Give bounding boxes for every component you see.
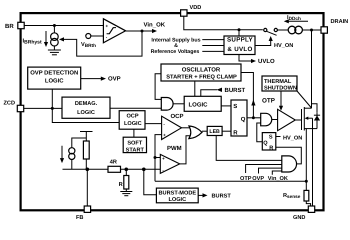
svg-text:BURST: BURST — [225, 87, 246, 94]
svg-text:LOGIC: LOGIC — [124, 121, 142, 127]
svg-text:VDD: VDD — [190, 5, 202, 11]
node drain junction — [310, 29, 313, 32]
block LEB — [207, 126, 222, 135]
wire LEB to AND4 — [216, 136, 282, 161]
wire FB divider rail — [63, 168, 88, 170]
pin VDD — [181, 10, 187, 16]
wire SR2 Q to AND B — [257, 123, 263, 142]
wire Q output — [247, 117, 261, 119]
switch HV_ON — [264, 28, 267, 31]
wire BR rail — [24, 25, 103, 27]
gate OR (OCP/PWM) — [189, 126, 202, 139]
node sense to PWM+ — [154, 156, 157, 159]
wire Vin_OK feedback to IBRhyst — [61, 31, 142, 56]
wire junction to supply block — [238, 30, 240, 36]
svg-text:LOGIC: LOGIC — [45, 77, 64, 84]
gate AND A (demag/osc) — [161, 98, 173, 111]
current source IBRhyst — [51, 33, 59, 41]
svg-text:LOGIC: LOGIC — [77, 110, 95, 116]
svg-text:+: + — [162, 156, 165, 161]
current source FB bias — [69, 148, 75, 154]
node VDD rail junction — [238, 28, 241, 31]
node BR junction — [53, 24, 56, 27]
border frame — [21, 13, 324, 210]
svg-text:OCP: OCP — [171, 113, 184, 120]
svg-text:SHUTDOWN: SHUTDOWN — [264, 85, 297, 91]
svg-text:LEB: LEB — [209, 129, 220, 135]
ground (divider R) — [125, 189, 127, 191]
wire drain column — [311, 30, 313, 108]
svg-text:Q: Q — [263, 141, 268, 147]
comparator PWM — [160, 154, 179, 173]
resistor R (FB top) — [83, 141, 89, 159]
svg-text:PWM: PWM — [167, 145, 182, 152]
node burst branch — [142, 168, 146, 172]
wire VDD rail — [184, 16, 263, 30]
svg-text:HV_ON: HV_ON — [274, 43, 293, 49]
wire OCP logic to soft start — [133, 129, 135, 137]
buffer driver — [278, 109, 296, 130]
block OSCILLATOR — [161, 64, 241, 81]
svg-text:UVLO: UVLO — [258, 58, 275, 65]
wire bus line 2 — [202, 45, 224, 47]
svg-text:SOFT: SOFT — [127, 140, 142, 146]
svg-text:Q: Q — [241, 116, 246, 123]
wire logic to latch S — [221, 105, 231, 107]
svg-text:+: + — [163, 133, 166, 138]
svg-text:IBRhyst: IBRhyst — [23, 39, 42, 46]
resistor R (divider) — [125, 169, 127, 175]
wire VBRth to comparator — [91, 35, 104, 37]
wire source to sense column — [305, 129, 307, 191]
wire OVP box to ZCD node — [51, 89, 53, 108]
node R branch — [125, 168, 129, 172]
svg-text:Reference Voltages: Reference Voltages — [151, 49, 200, 55]
svg-text:R: R — [119, 182, 123, 188]
node sense junction — [305, 180, 308, 183]
wire FB pin column — [86, 169, 88, 206]
svg-text:BURST-MODE: BURST-MODE — [158, 190, 196, 196]
wire drain to diode branch — [312, 104, 318, 113]
node Q junction — [252, 116, 255, 119]
wire divider to PWM — [121, 168, 161, 170]
wire current source to DRAIN — [302, 29, 321, 31]
svg-text:THERMAL: THERMAL — [264, 79, 292, 85]
gate AND4 (OTP/OVP/VinOK) — [282, 156, 297, 172]
wire comparator output Vin_OK — [126, 30, 153, 32]
svg-text:LOGIC: LOGIC — [189, 101, 209, 108]
svg-text:IDDch: IDDch — [287, 15, 301, 21]
wire AND A output — [173, 103, 184, 105]
current source IDDch — [288, 26, 296, 34]
wire switch to current source — [277, 29, 288, 31]
svg-text:Vin_OK: Vin_OK — [144, 22, 166, 29]
block THERMAL SHUTDOWN — [262, 76, 297, 91]
comparator U1 (brownout) — [103, 19, 125, 43]
block BURST-MODE LOGIC — [156, 188, 198, 203]
MOSFET M1 — [301, 109, 303, 130]
wire OCP logic to comparator — [145, 123, 162, 125]
svg-text:START: START — [126, 147, 145, 153]
wire bus line 3 — [202, 50, 224, 52]
svg-text:HV_ON: HV_ON — [283, 135, 302, 141]
wire ZCD node to OCP logic — [52, 108, 119, 122]
pin DRAIN — [321, 27, 327, 33]
latch SR1 — [231, 100, 247, 136]
svg-text:STARTER + FREQ CLAMP: STARTER + FREQ CLAMP — [166, 74, 237, 80]
svg-text:Rsense: Rsense — [283, 193, 301, 199]
wire thermal OTP arrow — [280, 91, 282, 107]
ground (BR current source) — [53, 46, 55, 50]
block DEMAG LOGIC — [62, 97, 110, 118]
wire BURST into logic — [201, 90, 217, 97]
wire source to GND column — [312, 118, 314, 206]
wire AND4 input VinOK — [272, 171, 282, 175]
block LOGIC — [184, 96, 221, 111]
svg-text:DEMAG.: DEMAG. — [75, 101, 98, 107]
svg-text:R: R — [233, 129, 238, 136]
supply tick (FB bias) — [80, 131, 93, 133]
svg-text:OVP: OVP — [108, 76, 121, 83]
wire demag to AND A — [110, 107, 161, 109]
wire OVP output — [81, 78, 101, 80]
wire oscillator left feedback — [155, 74, 161, 100]
resistor Rsense — [304, 190, 309, 201]
wire OR to LEB — [202, 130, 207, 132]
wire BURST output — [198, 194, 202, 196]
svg-text:OVP DETECTION: OVP DETECTION — [30, 70, 78, 77]
wire ZCD rail — [24, 107, 62, 109]
svg-text:SUPPLY: SUPPLY — [227, 37, 254, 44]
svg-text:BURST: BURST — [212, 194, 232, 200]
wire sense riser — [155, 135, 162, 182]
wire AND4 input OVP — [259, 168, 282, 173]
comparator OCP — [162, 116, 182, 139]
wire HV_ON to switch — [255, 41, 271, 46]
wire AND4 to SR2 R — [276, 147, 302, 164]
wire PWM output to OR — [180, 136, 190, 164]
node VBRth terminal — [86, 34, 91, 39]
wire oscillator to logic — [194, 81, 196, 96]
block SOFT START — [123, 137, 146, 152]
svg-text:VBRth: VBRth — [81, 42, 96, 48]
wire OCP output to OR — [182, 127, 191, 129]
wire AND4 input OTP — [246, 165, 282, 174]
wire UVLO output — [239, 55, 252, 62]
svg-text:S: S — [233, 103, 237, 110]
svg-text:LOGIC: LOGIC — [168, 197, 186, 203]
gate AND B (driver) — [261, 113, 272, 126]
latch SR2 HV_ON — [262, 133, 276, 150]
svg-text:ZCD: ZCD — [4, 101, 16, 107]
block OVP DETECTION LOGIC — [28, 67, 81, 89]
svg-text:& UVLO: & UVLO — [227, 46, 252, 53]
wire thermal diagonal to drain — [297, 91, 312, 108]
svg-text:+: + — [106, 24, 109, 29]
wire buffer to gate — [295, 119, 301, 121]
svg-text:OTP: OTP — [262, 97, 275, 104]
block SUPPLY & UVLO — [224, 36, 255, 55]
wire oscillator right to Q rail — [241, 73, 253, 119]
diode body — [316, 113, 318, 129]
pin BR — [18, 22, 24, 28]
svg-text:4R: 4R — [110, 160, 117, 166]
svg-text:DRAIN: DRAIN — [331, 19, 349, 25]
pin ZCD — [17, 105, 23, 111]
wire LEB to latch R — [222, 130, 231, 132]
svg-text:S: S — [269, 134, 273, 140]
block OCP LOGIC — [119, 111, 145, 130]
wire AND B to buffer — [272, 119, 278, 121]
resistor 4R — [87, 168, 108, 170]
svg-text:OCP: OCP — [126, 113, 138, 119]
wire BR node to current source — [53, 26, 55, 34]
wire bus line 1 — [202, 39, 224, 41]
svg-text:OSCILLATOR: OSCILLATOR — [182, 66, 221, 73]
pin GND — [308, 206, 314, 212]
wire sense line — [155, 180, 306, 182]
svg-text:BR: BR — [5, 23, 14, 30]
svg-text:GND: GND — [293, 215, 305, 221]
wire SR2 S stub — [276, 136, 281, 138]
pin FB — [84, 206, 90, 212]
node FB junction — [86, 168, 90, 172]
svg-text:R: R — [269, 146, 273, 152]
wire to burst-mode logic — [144, 169, 157, 195]
svg-text:FB: FB — [76, 215, 83, 221]
node ZCD junction — [51, 107, 54, 110]
